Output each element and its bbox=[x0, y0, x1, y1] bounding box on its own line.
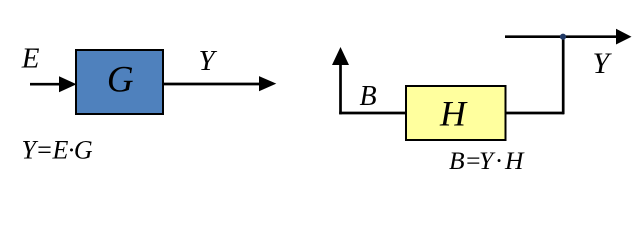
svg-text:Y: Y bbox=[199, 45, 218, 77]
svg-text:B: B bbox=[360, 81, 377, 112]
svg-text:Y: Y bbox=[593, 47, 613, 80]
svg-text:Y=E·G: Y=E·G bbox=[22, 136, 93, 165]
svg-text:B=Y·H: B=Y·H bbox=[449, 146, 525, 175]
svg-text:G: G bbox=[107, 60, 134, 101]
svg-text:H: H bbox=[439, 93, 468, 133]
svg-text:E: E bbox=[21, 43, 40, 75]
